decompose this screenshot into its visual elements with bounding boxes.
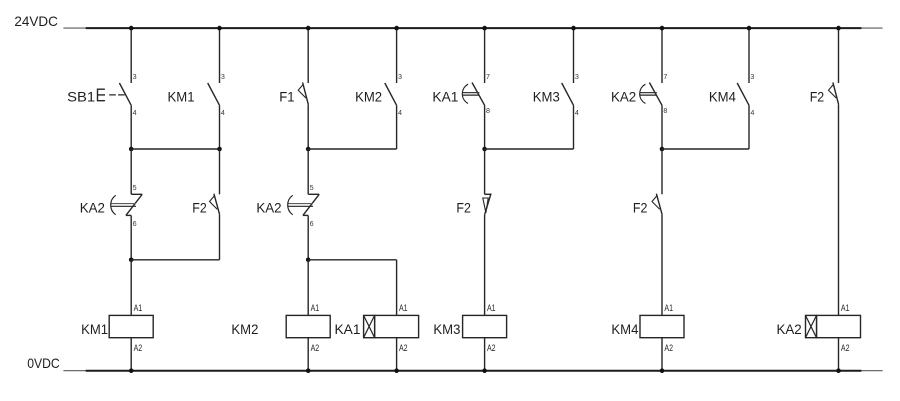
- net label 0VDC: [27, 355, 60, 371]
- label KA1 (coil): [335, 321, 361, 337]
- svg-text:F1: F1: [279, 89, 294, 105]
- wire node A branch to F2 contact: [219, 149, 221, 194]
- label KA2 (contact, rung 2): [256, 199, 281, 215]
- pin 6 of KA2 contact: [133, 219, 137, 228]
- label KA2 (contact, rung 1): [80, 199, 105, 215]
- wire rail to SB1: [130, 28, 132, 83]
- wire rail to F1: [307, 28, 309, 83]
- node E junction dot: [482, 147, 487, 152]
- pin A1 of KM3: [487, 303, 496, 313]
- pin 4 of KM1 contact: [221, 108, 225, 117]
- svg-text:5: 5: [133, 183, 137, 192]
- pin 4 of KM2 contact: [398, 108, 402, 117]
- contact KA2 (NC off-delay, pins 5-6, rung 2): [287, 194, 319, 215]
- junction dot column 3 bottom rail: [306, 368, 311, 373]
- wire KA2 contact to node F: [661, 105, 663, 149]
- svg-text:A1: A1: [664, 303, 673, 313]
- svg-text:A2: A2: [134, 343, 143, 353]
- svg-text:A2: A2: [841, 343, 850, 353]
- contact KA1 (NO on-delay, pins 7-8): [462, 83, 485, 106]
- label KA1 (contact): [432, 89, 458, 105]
- svg-text:3: 3: [750, 72, 754, 81]
- svg-text:A2: A2: [487, 343, 496, 353]
- svg-text:4: 4: [398, 108, 402, 117]
- svg-text:KM4: KM4: [611, 321, 638, 337]
- junction dot column 9 top rail: [836, 26, 841, 31]
- svg-text:KA2: KA2: [80, 199, 105, 215]
- pin 5 of KA2 rung 2: [310, 183, 314, 192]
- svg-text:3: 3: [133, 72, 137, 81]
- branch wire node E: [485, 148, 574, 150]
- label KM1 (contact): [168, 89, 195, 105]
- contact KA2 (NO on-delay, pins 7-8): [639, 83, 662, 106]
- junction dot column 2 top rail: [217, 26, 222, 31]
- wire node C to KA2 contact: [307, 149, 309, 194]
- svg-text:KM1: KM1: [168, 89, 195, 105]
- svg-text:A2: A2: [664, 343, 673, 353]
- wire coil KM2 to 0VDC: [307, 338, 309, 371]
- coil KM1 (contactor coil A1-A2): [109, 315, 153, 337]
- label F2 (rung 3 contact): [456, 199, 471, 215]
- pin 8 of KA1 contact: [486, 106, 490, 115]
- label KA2 (contact, rung 4): [611, 89, 636, 105]
- svg-text:KA1: KA1: [432, 89, 458, 105]
- wire F2 to coil KA2: [838, 104, 840, 315]
- junction dot column 4 top rail: [394, 26, 399, 31]
- junction dot column 3 top rail: [306, 26, 311, 31]
- svg-text:KM3: KM3: [533, 89, 560, 105]
- pin A2 of KM4: [664, 343, 673, 353]
- 0VDC return rail: [63, 370, 882, 372]
- svg-text:KM3: KM3: [433, 321, 460, 337]
- svg-text:KA2: KA2: [611, 89, 636, 105]
- wire node D branch to coil KA1: [396, 260, 398, 316]
- wire rail to KM1 contact: [219, 28, 221, 83]
- junction dot column 6 top rail: [571, 26, 576, 31]
- coil KM4 (contactor coil A1-A2): [640, 315, 684, 337]
- wire KA2 to node B: [130, 215, 132, 259]
- svg-text:3: 3: [575, 72, 579, 81]
- pin 4 of SB1: [133, 108, 137, 117]
- contact KM3 (NO, pins 3-4): [562, 83, 574, 105]
- wire rail to KA1 contact: [484, 28, 486, 83]
- svg-text:A1: A1: [487, 303, 496, 313]
- label SB1: [67, 89, 95, 105]
- branch wire node C: [308, 148, 396, 150]
- junction dot column 7 top rail: [660, 26, 665, 31]
- pin A2 of KM2: [311, 343, 320, 353]
- label F1: [279, 89, 294, 105]
- svg-text:A2: A2: [311, 343, 320, 353]
- wire F2 to coil KM3: [484, 215, 486, 316]
- svg-text:A1: A1: [399, 303, 408, 313]
- node B junction dot: [129, 258, 134, 263]
- junction dot column 9 bottom rail: [836, 368, 841, 373]
- pin 8 of KA2 contact: [663, 106, 667, 115]
- label KM2 (contact): [355, 89, 382, 105]
- label F2 (rung 5 contact): [810, 89, 825, 105]
- svg-text:24VDC: 24VDC: [14, 13, 58, 29]
- branch wire node F: [662, 148, 749, 150]
- svg-text:KM2: KM2: [231, 321, 258, 337]
- wire rail to F2 contact: [838, 28, 840, 83]
- junction dot column 8 top rail: [747, 26, 752, 31]
- wire F2 to node B branch: [219, 214, 221, 260]
- contact F1 (thermal overload): [298, 82, 308, 104]
- svg-text:KM2: KM2: [355, 89, 382, 105]
- pin 4 of KM4 contact: [750, 108, 754, 117]
- pin A2 of KA1: [399, 343, 408, 353]
- label KM2 (coil): [231, 321, 258, 337]
- svg-text:KA2: KA2: [777, 321, 802, 337]
- svg-text:6: 6: [133, 219, 137, 228]
- svg-text:4: 4: [575, 108, 579, 117]
- wire KM4 contact to node F branch: [748, 105, 750, 149]
- svg-text:7: 7: [486, 72, 490, 81]
- wire KA1 contact to node E: [484, 105, 486, 149]
- svg-text:KM1: KM1: [81, 321, 108, 337]
- label KM3 (coil): [433, 321, 460, 337]
- wire KA2 to node D: [307, 215, 309, 259]
- net label 24VDC: [14, 13, 58, 29]
- branch wire node A: [131, 148, 219, 150]
- svg-text:KM4: KM4: [709, 89, 736, 105]
- contact F2 (thermal overload, rung 1): [210, 194, 220, 215]
- coil KM2 (contactor coil A1-A2): [286, 315, 330, 337]
- label F2 (rung 4 contact): [633, 199, 648, 215]
- node A junction dot: [129, 147, 134, 152]
- wire coil KA2 to 0VDC: [838, 338, 840, 371]
- pin A2 of KM1: [134, 343, 143, 353]
- wire node B to coil KM1: [130, 260, 132, 316]
- label KM1 (coil): [81, 321, 108, 337]
- wire coil KM3 to 0VDC: [484, 338, 486, 371]
- pin 3 of KM2 contact: [398, 72, 402, 81]
- wire node D to coil KM2: [307, 260, 309, 316]
- svg-text:KA1: KA1: [335, 321, 361, 337]
- pin A1 of KM4: [664, 303, 673, 313]
- pin A1 of KM1: [134, 303, 143, 313]
- pin 3 of KM3 contact: [575, 72, 579, 81]
- pin 7 of KA2 contact: [663, 72, 667, 81]
- svg-text:8: 8: [486, 106, 490, 115]
- pushbutton SB1 (NO, pins 3-4): [97, 83, 131, 105]
- wire coil KM1 to 0VDC: [130, 338, 132, 371]
- junction dot column 5 bottom rail: [482, 368, 487, 373]
- label KA2 (coil): [777, 321, 802, 337]
- contact F2 (thermal overload, rung 5): [829, 82, 839, 104]
- wire coil KM4 to 0VDC: [661, 338, 663, 371]
- wire KM1 contact to node A branch: [219, 105, 221, 149]
- label F2 (rung 1 contact): [192, 199, 207, 215]
- svg-text:5: 5: [310, 183, 314, 192]
- svg-text:4: 4: [133, 108, 137, 117]
- wire rail to KA2 contact: [661, 28, 663, 83]
- svg-text:F2: F2: [192, 199, 207, 215]
- contact F2 (NC thermal overload, rung 3): [483, 194, 491, 215]
- pin A1 of KM2: [311, 303, 320, 313]
- wire F1 to node C: [307, 104, 309, 149]
- svg-text:6: 6: [310, 219, 314, 228]
- pin A1 of KA2 coil: [841, 303, 850, 313]
- wire node F to F2 contact: [661, 149, 663, 194]
- pin A2 of KM3: [487, 343, 496, 353]
- svg-text:0VDC: 0VDC: [27, 355, 60, 371]
- wire rail to KM3 contact: [573, 28, 575, 83]
- svg-text:SB1: SB1: [67, 89, 95, 105]
- wire rail to KM4 contact: [748, 28, 750, 83]
- svg-text:KA2: KA2: [256, 199, 281, 215]
- svg-text:7: 7: [663, 72, 667, 81]
- svg-text:A1: A1: [841, 303, 850, 313]
- coil KA1 (relay coil A1-A2): [364, 315, 419, 337]
- contact KM1 (NO, pins 3-4): [208, 83, 220, 105]
- wire node E to F2 contact: [484, 149, 486, 194]
- svg-text:A1: A1: [134, 303, 143, 313]
- contact KM2 (NO, pins 3-4): [385, 83, 397, 105]
- contact KA2 (NC off-delay, pins 5-6): [110, 194, 142, 215]
- pin 5 of KA2 contact: [133, 183, 137, 192]
- svg-text:3: 3: [221, 72, 225, 81]
- label KM4 (coil): [611, 321, 638, 337]
- contact KM4 (NO, pins 3-4): [737, 83, 749, 105]
- node F junction dot: [660, 147, 665, 152]
- pin 7 of KA1 contact: [486, 72, 490, 81]
- svg-text:F2: F2: [810, 89, 825, 105]
- 24VDC supply rail: [63, 27, 882, 29]
- node D junction dot: [306, 258, 311, 263]
- svg-text:4: 4: [221, 108, 225, 117]
- pin 3 of SB1: [133, 72, 137, 81]
- pin A1 of KA1: [399, 303, 408, 313]
- contact F2 (thermal overload, rung 4): [652, 194, 662, 215]
- label KM4 (contact): [709, 89, 736, 105]
- svg-text:8: 8: [663, 106, 667, 115]
- pin 3 of KM1 contact: [221, 72, 225, 81]
- node C junction dot: [306, 147, 311, 152]
- wire SB1 to node A: [130, 105, 132, 149]
- svg-text:A1: A1: [311, 303, 320, 313]
- wire KM2 contact to node C branch: [396, 105, 398, 149]
- junction dot column 5 top rail: [482, 26, 487, 31]
- pin A2 of KA2 coil: [841, 343, 850, 353]
- branch wire node B: [131, 259, 219, 261]
- wire node A to KA2 contact: [130, 149, 132, 194]
- svg-text:F2: F2: [633, 199, 648, 215]
- pin 4 of KM3 contact: [575, 108, 579, 117]
- svg-text:4: 4: [750, 108, 754, 117]
- junction dot node A branch: [217, 147, 222, 152]
- junction dot column 7 bottom rail: [660, 368, 665, 373]
- junction dot column 1 bottom rail: [129, 368, 134, 373]
- junction dot column 1 top rail: [129, 26, 134, 31]
- wire rail to KM2 contact: [396, 28, 398, 83]
- pin 3 of KM4 contact: [750, 72, 754, 81]
- svg-text:3: 3: [398, 72, 402, 81]
- svg-text:F2: F2: [456, 199, 471, 215]
- coil KM3 (contactor coil A1-A2): [463, 315, 507, 337]
- label KM3 (contact): [533, 89, 560, 105]
- wire KM3 contact to node E branch: [573, 105, 575, 149]
- coil KA2 (relay coil A1-A2): [806, 315, 861, 337]
- pin 6 of KA2 rung 2: [310, 219, 314, 228]
- wire coil KA1 to 0VDC: [396, 338, 398, 371]
- wire F2 to coil KM4: [661, 214, 663, 315]
- svg-text:A2: A2: [399, 343, 408, 353]
- junction dot column 4 bottom rail: [394, 368, 399, 373]
- branch wire node D: [308, 259, 396, 261]
